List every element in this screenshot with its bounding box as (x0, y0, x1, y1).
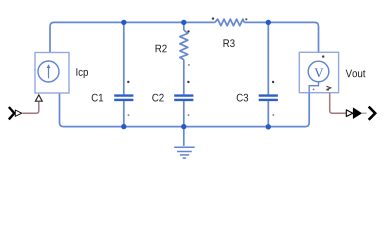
wire node A to C1 top plate (123, 22, 125, 94)
wire top rail right (node B to voltmeter top) (244, 22, 318, 52)
label Icp (76, 68, 88, 78)
minus C3 (272, 114, 274, 116)
polarity marks (127, 17, 324, 116)
voltmeter U Vout (299, 52, 338, 92)
input port arrow (9, 107, 22, 119)
wire C1 bottom plate to bottom rail (123, 101, 125, 127)
capacitor C1 (114, 96, 133, 100)
plus C3 (272, 81, 274, 83)
plus voltmeter (322, 55, 324, 57)
minus C2 (188, 114, 190, 116)
wire C3 bottom plate to bottom rail (267, 101, 269, 127)
wire physical signal output (brown) (330, 93, 346, 114)
resistor R3 (215, 19, 244, 26)
plus C2 (187, 81, 189, 83)
label R3 (223, 39, 234, 47)
plus R3 (212, 17, 214, 19)
capacitor C2 (174, 96, 193, 100)
wire node A to R2 (183, 22, 185, 30)
minus R2 (188, 64, 190, 66)
output port arrow (346, 107, 375, 120)
current source Icp (35, 53, 69, 94)
resistor R2 (180, 30, 188, 60)
minus C1 (128, 114, 130, 116)
label C1 (92, 94, 103, 102)
label C3 (237, 94, 248, 102)
plus R2 (187, 30, 189, 32)
capacitor C3 (259, 96, 278, 100)
wire ground stub (183, 127, 185, 146)
wire physical signal input (brown) (22, 102, 39, 114)
wire node B to C3 top plate (267, 22, 269, 94)
wire top rail left (Icp top to node A) (50, 22, 215, 52)
minus R3 (245, 18, 247, 20)
wire C2 bottom plate to bottom rail (183, 101, 185, 127)
plus C1 (127, 81, 129, 83)
wire bottom rail (60, 93, 310, 127)
minus voltmeter (313, 89, 315, 91)
label R2 (156, 45, 167, 53)
label Vout (346, 70, 366, 78)
node junction dots (121, 20, 271, 130)
wire R2 to C2 top plate (183, 60, 185, 95)
ground (174, 147, 195, 158)
label C2 (152, 94, 163, 102)
port triangle below Icp (35, 95, 42, 101)
